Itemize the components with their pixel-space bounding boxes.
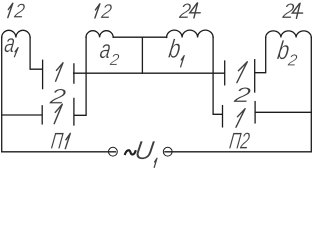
label 24 over b1 : digit 4 xyxy=(190,3,200,18)
label U1 : subscript 1 xyxy=(154,158,157,167)
label P2 switch xyxy=(228,128,252,154)
label a2 xyxy=(97,34,122,69)
label b1 xyxy=(167,34,183,64)
svg-text:П2: П2 xyxy=(228,128,252,154)
svg-text:b: b xyxy=(167,34,183,64)
label 24 over b2 : digit 4 xyxy=(292,3,302,18)
wire P2 lower contact lead to right rail xyxy=(255,111,311,113)
label P1 contact 1 top : digit 1 xyxy=(56,63,63,81)
wire a2 to b1 xyxy=(113,36,166,38)
svg-text:П: П xyxy=(50,128,65,154)
label 12 over a2 : digit 1 xyxy=(95,4,100,18)
coil b1 xyxy=(167,30,214,37)
wire mid junction down xyxy=(141,37,143,73)
label P1 switch : letter P xyxy=(50,128,65,154)
label a1 xyxy=(3,28,17,58)
svg-text:2: 2 xyxy=(231,84,252,107)
contact plate P2 lower-right xyxy=(254,102,256,123)
label P1 contact 1 bottom : digit 1 xyxy=(54,104,62,124)
wire a1 right terminal down to switch P1 contact 1 xyxy=(30,38,42,70)
contact plate P2 upper-left xyxy=(224,61,226,85)
wire a2 left terminal down to P1 lower contact xyxy=(74,37,86,115)
label b1 : subscript 1 xyxy=(181,56,185,67)
wire lead from left rail to P1 lower contact xyxy=(2,114,42,116)
wire b1 right terminal down to P2 lower contact xyxy=(213,38,222,115)
coil b2 xyxy=(266,31,312,38)
label ~ source xyxy=(125,150,136,155)
wire a1 left rail down to bottom xyxy=(1,38,3,152)
label P2 contact 1 bottom : digit 1 xyxy=(236,109,245,128)
wire bottom left to source xyxy=(2,151,116,153)
wire b2 right rail down and bottom right to source xyxy=(165,38,311,152)
wire long horizontal between switches xyxy=(74,72,225,74)
label P1 : digit 1 xyxy=(65,133,70,148)
terminal circle left xyxy=(109,147,118,156)
contact plate P1 upper-left xyxy=(42,60,44,88)
label 12 over a2 : digit 2 xyxy=(99,1,113,23)
label 24 over b2 xyxy=(280,0,295,23)
label a1 : subscript 1 xyxy=(14,48,18,57)
svg-text:2: 2 xyxy=(12,1,26,23)
coil a2 xyxy=(86,31,113,38)
label 24 over b1 xyxy=(177,0,192,23)
contact plate P1 lower-left xyxy=(41,106,43,124)
label U1 source : letter U xyxy=(133,135,156,165)
label 12 over a1 : digit 2 xyxy=(12,1,26,23)
svg-text:a2: a2 xyxy=(97,34,122,69)
label P1 contact 2 xyxy=(47,86,67,109)
label 12 over a1 : digit 1 xyxy=(8,3,13,17)
coil a1 xyxy=(2,30,30,37)
wire P2 upper contact lead up to b2 xyxy=(255,38,266,73)
contact plate P1 upper-right xyxy=(73,64,75,83)
terminal circle right xyxy=(163,147,172,156)
svg-text:b2: b2 xyxy=(275,35,301,70)
contact plate P2 lower-left xyxy=(222,106,224,127)
contact plate P1 lower-right xyxy=(73,98,75,125)
svg-text:a: a xyxy=(3,28,17,58)
svg-text:U: U xyxy=(133,135,156,165)
svg-text:2: 2 xyxy=(99,1,113,23)
label P2 contact 1 top : digit 1 xyxy=(237,62,247,83)
label b2 xyxy=(275,35,301,70)
contact plate P2 upper-right xyxy=(254,60,256,92)
svg-text:2: 2 xyxy=(47,86,67,109)
label P2 contact 2 xyxy=(231,84,252,107)
